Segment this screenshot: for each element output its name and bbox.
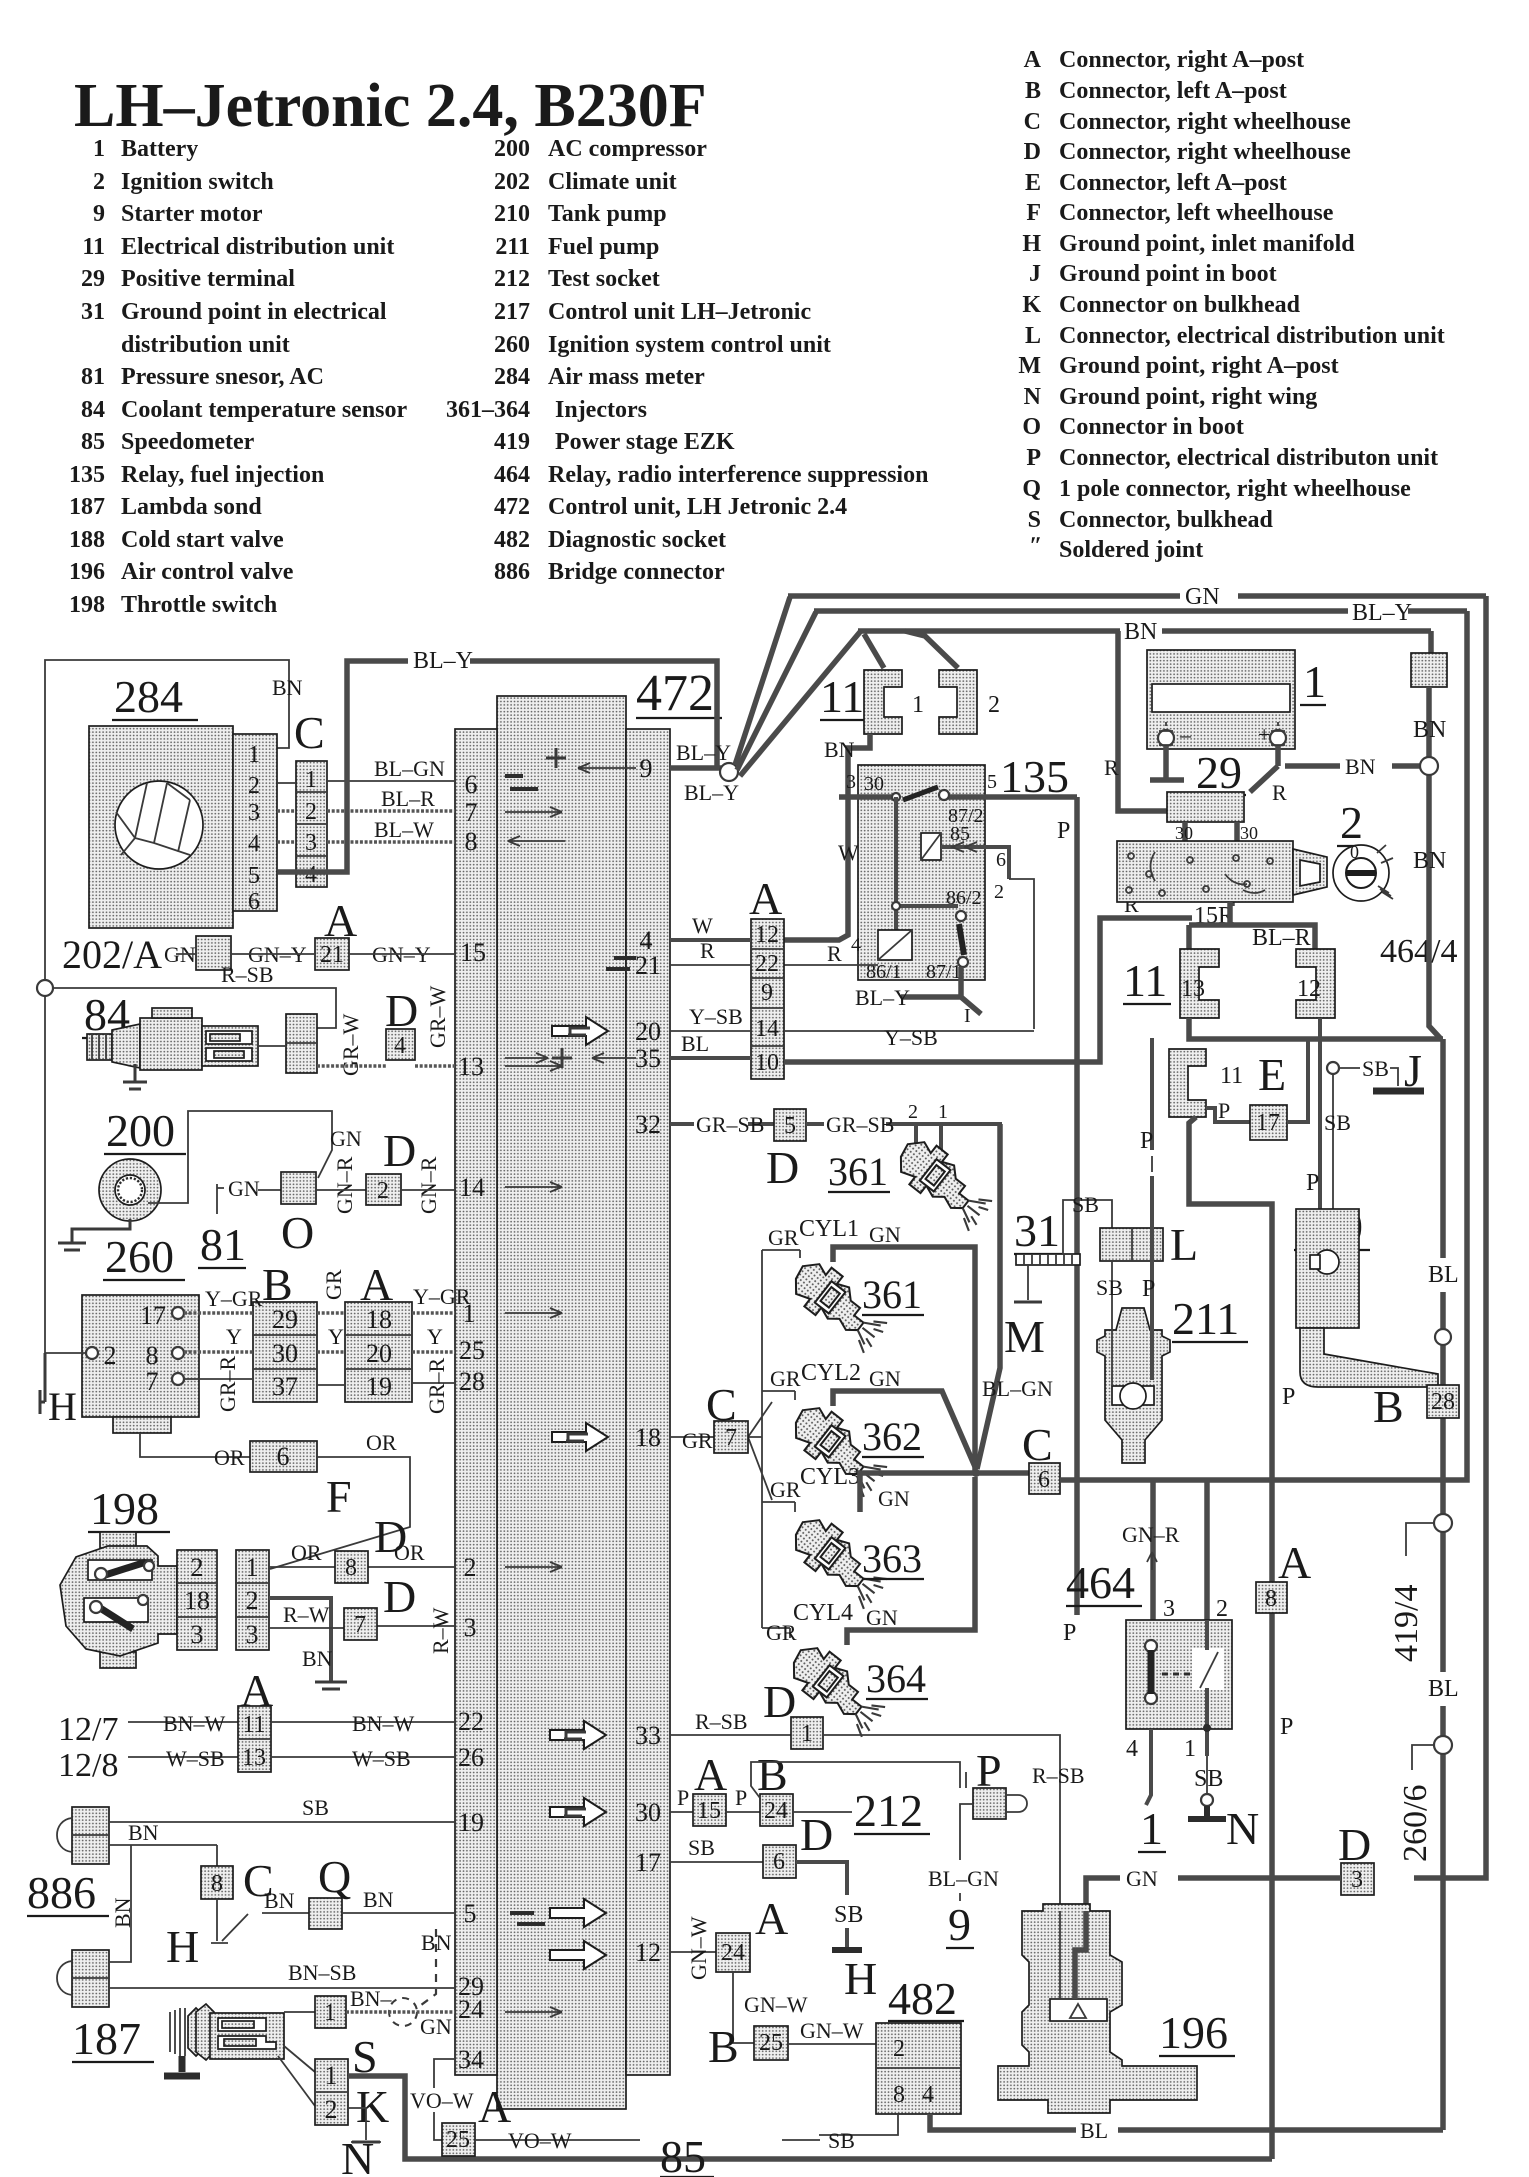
relay 135 coil 85: [921, 833, 941, 860]
svg-text:Relay, fuel injection: Relay, fuel injection: [121, 462, 324, 488]
wire pin2-C1: [277, 782, 296, 784]
svg-text:L: L: [1025, 323, 1041, 349]
svg-text:5: 5: [784, 1113, 796, 1139]
svg-text:CYL2: CYL2: [801, 1360, 861, 1386]
svg-text:20: 20: [366, 1339, 392, 1368]
svg-text:2: 2: [325, 2095, 338, 2124]
wires 29 to switch: [1175, 822, 1258, 843]
wire GN-W pin12 to A24: [670, 1916, 716, 1980]
svg-text:6: 6: [773, 1849, 785, 1875]
svg-text:GR–W: GR–W: [338, 1013, 363, 1076]
svg-text:GR–SB: GR–SB: [696, 1112, 764, 1137]
diagonal wires 187 to S: [278, 2046, 315, 2106]
connector A15: [693, 1794, 726, 1826]
svg-text:J: J: [1029, 261, 1041, 287]
wire left border loop from H up and across to BN: [45, 660, 289, 1353]
svg-text:BL–GN: BL–GN: [374, 756, 445, 781]
wire C6 line left part: [976, 1470, 1029, 1476]
connector C8: [201, 1866, 233, 1899]
wire BN-W to pin22: [271, 1711, 455, 1736]
svg-text:GR: GR: [766, 1620, 797, 1645]
connector A21: [315, 938, 349, 970]
svg-text:B: B: [757, 1749, 788, 1800]
svg-text:D: D: [383, 1125, 416, 1176]
svg-text:217: 217: [494, 299, 530, 325]
label 200: [104, 1105, 186, 1156]
svg-text:Y: Y: [427, 1324, 443, 1349]
label 187: [72, 2013, 154, 2064]
svg-text:GR: GR: [682, 1428, 713, 1453]
svg-text:30: 30: [272, 1339, 298, 1368]
svg-text:25: 25: [759, 2030, 783, 2056]
svg-text:BL–Y: BL–Y: [413, 648, 473, 674]
connector C7: [714, 1421, 748, 1453]
wire Y-SB from A14 to relay 2: [784, 1025, 1034, 1050]
svg-text:Injectors: Injectors: [555, 397, 647, 423]
svg-text:GN: GN: [869, 1366, 901, 1391]
label 198: [88, 1483, 170, 1534]
svg-text:BN–: BN–: [350, 1986, 393, 2011]
ground M below 31: [1004, 1265, 1045, 1362]
connector 11 bracket 1: [864, 670, 902, 734]
svg-text:BN: BN: [264, 1888, 295, 1913]
svg-text:W–SB: W–SB: [352, 1746, 411, 1771]
svg-text:O: O: [281, 1207, 314, 1258]
svg-text:8: 8: [345, 1555, 357, 1581]
svg-text:GN: GN: [228, 1176, 260, 1201]
svg-text:14: 14: [755, 1016, 779, 1042]
svg-text:D: D: [374, 1511, 407, 1562]
svg-text:198: 198: [90, 1483, 159, 1534]
throttle switch 198 body: [60, 1532, 177, 1668]
relay 135 blade 87/1: [959, 924, 964, 955]
svg-text:2: 2: [893, 2036, 905, 2062]
svg-text:E: E: [1258, 1049, 1286, 1100]
connector D8: [335, 1551, 368, 1583]
472 left strip pin numbers: [458, 770, 486, 2074]
svg-text:P: P: [1218, 1098, 1230, 1123]
svg-text:R–W: R–W: [283, 1602, 330, 1627]
connector 11 bracket 13: [1180, 949, 1219, 1018]
node soldered joint R-SB: [37, 980, 53, 996]
connector 11 bracket 12: [1296, 949, 1335, 1018]
connector D2: [366, 1174, 401, 1205]
svg-text:Lambda sond: Lambda sond: [121, 494, 262, 520]
svg-text:W: W: [692, 913, 713, 938]
connector D1: [791, 1717, 823, 1749]
wire GR-SB pin32 to D5: [670, 1112, 774, 1137]
svg-text:8: 8: [211, 1871, 223, 1897]
svg-text:B: B: [708, 2021, 739, 2072]
svg-text:BL: BL: [681, 1031, 709, 1056]
svg-text:N: N: [1226, 1803, 1259, 1854]
svg-text:18: 18: [635, 1423, 661, 1452]
svg-text:GR–SB: GR–SB: [826, 1112, 894, 1137]
svg-text:12/7: 12/7: [58, 1711, 118, 1748]
wire GN right vertical to D3 row: [1414, 596, 1486, 1878]
svg-text:464: 464: [1066, 1557, 1135, 1608]
label 15R: [1192, 906, 1240, 926]
wire D2 to pin14: [401, 1189, 455, 1191]
label 212: [854, 1785, 930, 1836]
svg-text:2: 2: [464, 1553, 477, 1582]
label 886: [27, 1867, 109, 1918]
label 85 speedometer: [660, 2131, 714, 2177]
ignition switch 2 box: [1117, 841, 1327, 902]
air control valve 196: [998, 1904, 1197, 2113]
svg-text:3: 3: [1163, 1596, 1175, 1622]
svg-text:Ignition switch: Ignition switch: [121, 169, 274, 195]
svg-text:B: B: [1373, 1381, 1404, 1432]
relay 87/1 contact: [958, 957, 968, 967]
connector B column 29/30/37: [253, 1302, 317, 1402]
wire 200 to O connector: [148, 1111, 332, 1203]
svg-text:212: 212: [494, 266, 530, 292]
relay 135 main contact wire: [839, 794, 1077, 800]
svg-text:5: 5: [987, 771, 997, 793]
svg-text:2: 2: [988, 692, 1000, 718]
svg-text:Connector on bulkhead: Connector on bulkhead: [1059, 292, 1301, 318]
wire battery plus to BN: [1250, 746, 1421, 805]
svg-text:15: 15: [460, 938, 486, 967]
svg-text:196: 196: [69, 559, 105, 585]
svg-text:GN–R: GN–R: [1122, 1522, 1180, 1547]
wire BN top: [858, 619, 1431, 653]
wire GR stub CYL4: [762, 1620, 797, 1645]
wire SB 886 to pin19: [109, 1795, 455, 1822]
svg-text:22: 22: [458, 1707, 484, 1736]
svg-text:GN: GN: [1126, 1866, 1158, 1891]
wire W from relay to A12: [784, 797, 859, 940]
svg-text:Battery: Battery: [121, 136, 198, 162]
svg-text:BN: BN: [1124, 619, 1157, 645]
svg-text:4: 4: [922, 2082, 934, 2108]
svg-text:1: 1: [938, 1101, 948, 1123]
svg-text:BL–Y: BL–Y: [1352, 600, 1412, 626]
svg-text:CYL3: CYL3: [800, 1464, 860, 1490]
svg-text:Connector, left A–post: Connector, left A–post: [1059, 78, 1287, 104]
svg-text:Y–GR: Y–GR: [413, 1284, 471, 1309]
connector F6: [250, 1441, 317, 1472]
fuel pump 211: [1097, 1308, 1170, 1463]
wire 85 to 6: [941, 847, 1009, 879]
svg-text:Diagnostic socket: Diagnostic socket: [548, 527, 726, 553]
wire BL-R from switch to bracket 12: [1189, 902, 1315, 951]
svg-text:Ground point, inlet manifold: Ground point, inlet manifold: [1059, 231, 1355, 257]
svg-text:Ignition system control unit: Ignition system control unit: [548, 332, 831, 358]
svg-text:SB: SB: [688, 1835, 715, 1860]
label 482: [888, 1973, 964, 2024]
tank pump 210: [1296, 1209, 1438, 1387]
svg-text:886: 886: [494, 559, 530, 585]
svg-text:28: 28: [459, 1367, 485, 1396]
svg-text:9: 9: [761, 980, 773, 1006]
svg-text:SB: SB: [1362, 1056, 1389, 1081]
svg-text:A: A: [755, 1893, 788, 1944]
label 29: [1194, 747, 1246, 798]
svg-text:GR–R: GR–R: [215, 1355, 240, 1412]
wire GN-W B25 to 482: [788, 2018, 876, 2044]
472 internal plus symbols: [546, 748, 572, 1068]
svg-text:N: N: [1024, 384, 1042, 410]
wire P pin30 to A15: [670, 1785, 693, 1812]
svg-text:F: F: [326, 1471, 352, 1522]
svg-text:472: 472: [636, 665, 714, 722]
label BL-Y top: [408, 649, 470, 670]
svg-text:P: P: [735, 1785, 747, 1810]
wire BL-Y pin9 to junction: [670, 740, 739, 805]
wire GN CYL3 to junction: [860, 1473, 978, 1512]
svg-text:187: 187: [72, 2013, 141, 2064]
wire GR-W to D4 and pin13: [317, 985, 455, 1076]
ground wire from 200: [58, 1219, 130, 1250]
svg-text:Pressure snesor, AC: Pressure snesor, AC: [121, 364, 324, 390]
svg-text:1: 1: [93, 136, 105, 162]
connector C6: [1029, 1463, 1060, 1494]
svg-text:3: 3: [305, 830, 317, 856]
label 11 right: [1123, 955, 1171, 1006]
wire GR pin18 to C7: [670, 1428, 714, 1453]
svg-text:P: P: [1306, 1170, 1319, 1196]
injector 361 D: [889, 1131, 1000, 1232]
svg-text:A: A: [1278, 1537, 1311, 1588]
wire row2 BN to ground: [269, 1598, 331, 1682]
svg-text:419: 419: [494, 429, 530, 455]
svg-text:BL–R: BL–R: [1252, 925, 1311, 951]
svg-text:AC compressor: AC compressor: [548, 136, 707, 162]
svg-text:OR: OR: [214, 1445, 245, 1470]
svg-text:25: 25: [459, 1336, 485, 1365]
svg-text:464: 464: [494, 462, 530, 488]
wire GR-SB D5 to injector: [806, 1112, 1002, 1137]
svg-text:12/8: 12/8: [58, 1747, 118, 1784]
label 81: [198, 1219, 246, 1270]
svg-text:472: 472: [494, 494, 530, 520]
svg-text:Ground point, right wing: Ground point, right wing: [1059, 384, 1317, 410]
svg-text:D: D: [766, 1142, 799, 1193]
svg-text:34: 34: [458, 2045, 484, 2074]
svg-text:8: 8: [146, 1341, 159, 1370]
svg-text:188: 188: [69, 527, 105, 553]
wire BN- GN hatched to pin24: [346, 1986, 455, 2039]
svg-text:6: 6: [248, 889, 260, 915]
svg-text:BN: BN: [824, 737, 855, 762]
svg-text:12: 12: [755, 922, 779, 948]
svg-text:1: 1: [325, 2061, 338, 2090]
ground H below D6: [832, 1950, 877, 2004]
svg-text:1: 1: [1140, 1803, 1163, 1854]
svg-text:H: H: [48, 1384, 77, 1429]
svg-text:4: 4: [305, 862, 317, 888]
wire 84 to connector: [258, 1045, 286, 1047]
svg-text:260: 260: [494, 332, 530, 358]
connector B24: [760, 1794, 793, 1826]
ground N right: [1188, 1756, 1226, 1819]
svg-text:363: 363: [862, 1536, 922, 1581]
relay 464 left contact: [1145, 1640, 1157, 1704]
wire BL-Y top: [814, 600, 1467, 626]
svg-text:361–364: 361–364: [446, 397, 530, 423]
svg-text:SB: SB: [1072, 1192, 1099, 1217]
ground strip 31: [1016, 1254, 1080, 1265]
472 right strip pin numbers: [635, 754, 661, 1967]
svg-text:BL: BL: [1080, 2118, 1108, 2143]
svg-text:9: 9: [93, 201, 105, 227]
air mass meter impeller circle: [115, 781, 203, 869]
label BN and wire to Q: [262, 1888, 309, 1913]
svg-text:2: 2: [377, 1178, 389, 1204]
svg-text:Connector, right wheelhouse: Connector, right wheelhouse: [1059, 139, 1351, 165]
svg-text:H: H: [1022, 231, 1041, 257]
wire GR stub CYL3: [762, 1477, 801, 1512]
wire BL-GN from socket to starter 9: [928, 1772, 999, 1901]
wire GN-R from C6 corner to relay464 pin3: [1122, 1480, 1180, 1642]
svg-text:87/1: 87/1: [926, 961, 962, 983]
svg-text:7: 7: [146, 1367, 159, 1396]
connector C column at 284: [296, 761, 327, 888]
svg-text:GN: GN: [330, 1126, 362, 1151]
svg-text:Y: Y: [226, 1324, 242, 1349]
svg-text:1: 1: [305, 767, 317, 793]
label 210: [1294, 1201, 1370, 1252]
svg-text:13: 13: [242, 1745, 266, 1771]
label 472: [636, 665, 722, 722]
svg-text:GN: GN: [1185, 584, 1220, 610]
svg-text:GN: GN: [878, 1486, 910, 1511]
ground J bar: [1373, 1088, 1424, 1095]
ground H below C8: [166, 1899, 248, 1972]
connector O box: [281, 1172, 316, 1204]
svg-text:3: 3: [191, 1620, 204, 1649]
legend left column 1: [69, 136, 408, 618]
wire P bracket to E17: [1206, 1098, 1250, 1123]
svg-text:Ground point in boot: Ground point in boot: [1059, 261, 1277, 287]
injector 364 CYL4: [782, 1637, 893, 1738]
svg-text:5: 5: [248, 863, 260, 889]
svg-text:21: 21: [635, 951, 661, 980]
svg-text:BN: BN: [302, 1646, 333, 1671]
svg-text:Cold start valve: Cold start valve: [121, 527, 284, 553]
relay 464 box: [1126, 1620, 1232, 1729]
svg-text:1 pole connector, right wheelh: 1 pole connector, right wheelhouse: [1059, 476, 1411, 502]
label 84: [82, 989, 134, 1040]
svg-text:GN–W: GN–W: [800, 2018, 864, 2043]
wire BL-R C2 to pin7: [327, 786, 455, 811]
svg-text:R–SB: R–SB: [1032, 1763, 1085, 1788]
ground H left: [40, 1353, 77, 1429]
wire from C6 line down to relay464 pin2: [1204, 1480, 1210, 1620]
svg-text:GN: GN: [866, 1605, 898, 1630]
svg-text:30: 30: [635, 1798, 661, 1827]
svg-text:2: 2: [1340, 797, 1363, 848]
injector 362 CYL2: [784, 1397, 895, 1498]
wire pin4-C3 hatched: [277, 840, 296, 844]
bridge connector 886 lower: [57, 1950, 109, 2007]
svg-text:4: 4: [1126, 1736, 1138, 1762]
relay fuel injection 135 box: [858, 765, 985, 980]
wire frame bracket13 to BL vertical: [1189, 1018, 1443, 1039]
control unit 472 left pin strip: [455, 729, 497, 2075]
svg-text:P: P: [1057, 818, 1070, 844]
svg-text:4: 4: [851, 934, 861, 956]
wire SB pin17 to D6: [670, 1835, 763, 1862]
node BN joint: [1420, 757, 1438, 775]
svg-text:13: 13: [458, 1052, 484, 1081]
svg-text:R: R: [827, 941, 842, 966]
svg-text:15: 15: [697, 1798, 721, 1824]
svg-text:+: +: [1258, 722, 1270, 747]
legend right: [1018, 47, 1444, 563]
svg-text:Q: Q: [1022, 476, 1041, 502]
svg-text:A: A: [749, 873, 782, 924]
svg-text:S: S: [1028, 507, 1041, 533]
svg-text:BL–GN: BL–GN: [928, 1866, 999, 1891]
svg-text:196: 196: [1159, 2007, 1228, 2058]
svg-text:8: 8: [893, 2082, 905, 2108]
svg-text:31: 31: [1014, 1205, 1060, 1256]
injector 361 CYL1: [784, 1253, 895, 1354]
svg-text:D: D: [385, 985, 418, 1036]
svg-text:4: 4: [248, 831, 260, 857]
relay 464 dashes: [1162, 1673, 1196, 1676]
label 363: [862, 1536, 924, 1581]
label 1 battery: [1300, 656, 1326, 707]
wire BL-GN C1 to pin6: [327, 756, 455, 781]
svg-text:P: P: [1140, 1128, 1153, 1154]
wire GN CYL4 to junction vertical: [847, 1477, 975, 1645]
wire BN-SB 886 lower to pin29: [109, 1960, 455, 1988]
label 364: [866, 1656, 928, 1701]
connector A column 18/20/19: [345, 1302, 412, 1402]
svg-text:361: 361: [828, 1149, 888, 1194]
connector A24: [716, 1933, 750, 1972]
injector terminals D361: [908, 1101, 948, 1152]
wire BN from box down: [1413, 687, 1446, 1039]
svg-text:A: A: [694, 1749, 727, 1800]
svg-text:R: R: [700, 938, 715, 963]
svg-text:Coolant temperature sensor: Coolant temperature sensor: [121, 397, 408, 423]
svg-text:BL–Y: BL–Y: [676, 740, 731, 765]
svg-text:Air control valve: Air control valve: [121, 559, 294, 585]
svg-text:18: 18: [366, 1305, 392, 1334]
ground below 198: [315, 1682, 347, 1689]
svg-text:260/6: 260/6: [1397, 1785, 1434, 1862]
svg-text:32: 32: [635, 1110, 661, 1139]
svg-text:BN–W: BN–W: [163, 1711, 226, 1736]
svg-text:6: 6: [465, 770, 478, 799]
wire branch to 260/6: [1412, 1745, 1434, 1770]
connector S column 1/2: [315, 2059, 348, 2125]
svg-text:19: 19: [458, 1808, 484, 1837]
svg-text:2: 2: [104, 1341, 117, 1370]
svg-text:25: 25: [446, 2127, 470, 2153]
wire P from relay down to C6: [1057, 797, 1077, 1646]
svg-text:1: 1: [324, 2000, 336, 2026]
relay 135 coil 86/1: [878, 930, 912, 960]
wire 187 to connector 1: [284, 2011, 315, 2013]
svg-text:O: O: [1022, 414, 1041, 440]
472 internal arrow step marks: [564, 1028, 590, 1816]
svg-text:2: 2: [246, 1586, 259, 1615]
svg-text:2: 2: [1216, 1596, 1228, 1622]
wire GN CYL1 to junction vertical: [833, 1222, 975, 1471]
svg-text:H: H: [166, 1921, 199, 1972]
svg-text:LH–Jetronic 2.4, B230F: LH–Jetronic 2.4, B230F: [74, 72, 707, 140]
connector box right of 84: [286, 1014, 317, 1073]
pin numbers 1-6 of 284 strip: [248, 742, 260, 915]
wire VO-W from pin34 to A25: [410, 2059, 474, 2140]
svg-text:3: 3: [846, 771, 856, 793]
